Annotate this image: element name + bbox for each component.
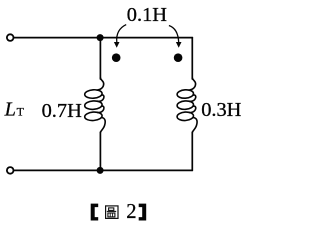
wire middle vertical lower (99, 132, 101, 170)
inductor L1 0.7H coil (84, 78, 105, 132)
wire top horizontal (14, 37, 193, 39)
wire middle vertical upper (99, 38, 101, 79)
polarity dot left (112, 53, 121, 62)
svg-text:T: T (17, 105, 25, 119)
svg-text:0.1H: 0.1H (127, 4, 167, 26)
inductor L2 0.3H coil (177, 78, 197, 132)
junction node bottom (97, 167, 104, 174)
caption bracket left (91, 204, 99, 221)
wire right vertical upper (191, 38, 193, 79)
junction node top (97, 34, 104, 41)
terminal bottom-left (7, 167, 14, 174)
svg-text:0.7H: 0.7H (42, 100, 82, 122)
wire right vertical lower (191, 132, 193, 170)
svg-text:2: 2 (126, 201, 136, 223)
caption glyph 圖 (106, 206, 118, 219)
caption bracket right (139, 204, 147, 221)
wire bottom horizontal (14, 169, 193, 171)
arrow to right dot (169, 26, 179, 43)
terminal top-left (7, 34, 14, 41)
svg-text:0.3H: 0.3H (201, 99, 241, 121)
arrow to left dot (117, 25, 127, 43)
polarity dot right (174, 53, 183, 62)
svg-text:L: L (4, 99, 16, 121)
